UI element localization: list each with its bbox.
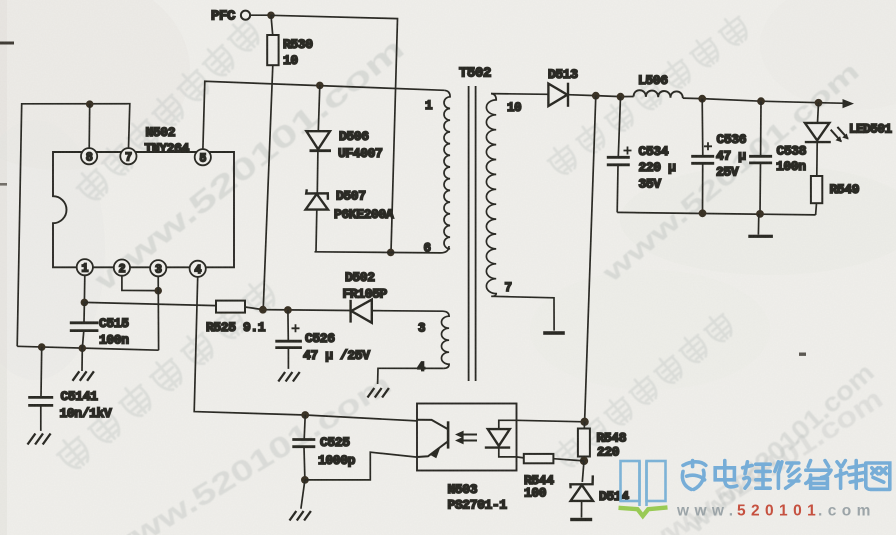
wire pin10 to D513: [491, 93, 548, 96]
resistor R525: [216, 301, 245, 313]
wire pin4 to optocoupler collector: [194, 277, 417, 421]
wire D513 to L506: [568, 95, 634, 97]
junction C525 bottom: [301, 476, 309, 484]
junction C534 tap: [617, 93, 625, 101]
wire output return bus: [617, 212, 815, 215]
junction C515 bottom: [79, 344, 87, 352]
pin 5 N502: [195, 149, 211, 165]
resistor R549: [816, 142, 818, 176]
resistor R548: [583, 422, 585, 429]
watermark logo chinese text: [682, 461, 889, 490]
junction R530 feed: [259, 306, 267, 314]
wire D502 to T502 pin3: [372, 310, 443, 313]
wire pin8 stub: [88, 104, 91, 148]
capacitor C526: [287, 310, 289, 341]
wire pin1 node to R525: [84, 302, 216, 305]
junction R548 bottom: [580, 457, 588, 465]
transistor Q1 opto phototransistor: [417, 420, 448, 458]
ground secondary return: [543, 331, 565, 335]
diode D507 (zener): [306, 189, 328, 209]
diode D513: [548, 83, 568, 107]
wire emitter return: [305, 452, 417, 480]
junction PFC node: [267, 12, 275, 20]
optocoupler U2 N503 box: [417, 404, 517, 471]
junction pin6 net: [387, 249, 395, 257]
transformer T502 core: [469, 86, 476, 381]
junction C526: [284, 306, 292, 314]
LED LED501: [815, 99, 823, 107]
ground C526: [287, 368, 289, 370]
junction C5141: [38, 343, 46, 351]
diode D514 (zener): [582, 461, 584, 482]
capacitor C5141: [40, 347, 43, 397]
junction pin8 tie: [86, 100, 94, 108]
ground C525: [301, 480, 305, 509]
wire PFC to junction: [250, 14, 271, 16]
wire R530 to R525 node: [263, 65, 273, 309]
ground near C515: [81, 348, 83, 371]
wire drain net (pin5 to T502 pin1): [203, 81, 444, 149]
wire opto cathode to R544: [517, 457, 524, 458]
wire clamp top: [318, 85, 320, 131]
pin 8 N502: [81, 148, 97, 164]
wire output line with arrow: [683, 98, 847, 103]
diode D506: [306, 131, 331, 151]
watermark logo book icon: [621, 461, 666, 506]
LED opto emitter diode: [485, 429, 510, 448]
transformer T502 secondary winding pin10-pin7: [486, 94, 496, 297]
wire R525 to D502: [245, 307, 350, 311]
resistor R530: [271, 15, 273, 35]
opto light arrows: [461, 435, 477, 441]
ground C5141: [40, 430, 42, 432]
ground D514: [570, 518, 592, 521]
junction R548 top: [580, 418, 588, 426]
junction drain / clamp: [316, 82, 324, 90]
pin 7 N502: [120, 148, 136, 164]
op-amp U1 : IC N502 TNY264 body: [53, 152, 234, 267]
ground aux winding: [377, 383, 379, 386]
transformer T502 primary winding pin1-pin6: [444, 90, 450, 249]
wire pin3 down to ground wire: [157, 276, 159, 350]
diode D502: [351, 300, 372, 323]
capacitor C534: [618, 97, 620, 157]
pin 1 N502: [77, 259, 93, 275]
wire PFC rail right and down to pin6 net: [271, 15, 398, 252]
capacitor C536: [698, 95, 706, 103]
wire source/ground net: [17, 346, 158, 350]
wire pin2 to pin3: [122, 276, 158, 291]
transformer T502 aux winding pin3-pin4: [442, 311, 450, 368]
watermark logo url: [676, 503, 876, 520]
wire feedback from output to opto: [585, 96, 596, 422]
junction pin3 tie: [154, 287, 162, 295]
inductor L506: [634, 90, 683, 98]
junction feedback tap: [592, 92, 600, 100]
wire opto anode to R548: [517, 420, 585, 422]
capacitor C538: [757, 97, 765, 105]
wire T502 pin4 to ground: [378, 368, 444, 383]
junction C525 top: [301, 411, 309, 419]
terminal PFC: [241, 11, 250, 20]
pin 4 N502: [190, 261, 206, 277]
ground output bus: [757, 214, 759, 235]
pin 3 N502: [150, 260, 166, 276]
capacitor C515: [83, 275, 85, 302]
wire pin7 to ground: [491, 296, 554, 330]
pin 2 N502: [114, 260, 130, 276]
wire bypass top (pin8-pin7 tie): [17, 104, 130, 347]
wire D507 to pin6 net: [315, 210, 318, 252]
resistor R544: [524, 454, 554, 463]
wire pin6 net: [315, 246, 450, 253]
capacitor C525: [304, 415, 305, 439]
wire D506 to D507: [316, 151, 319, 193]
